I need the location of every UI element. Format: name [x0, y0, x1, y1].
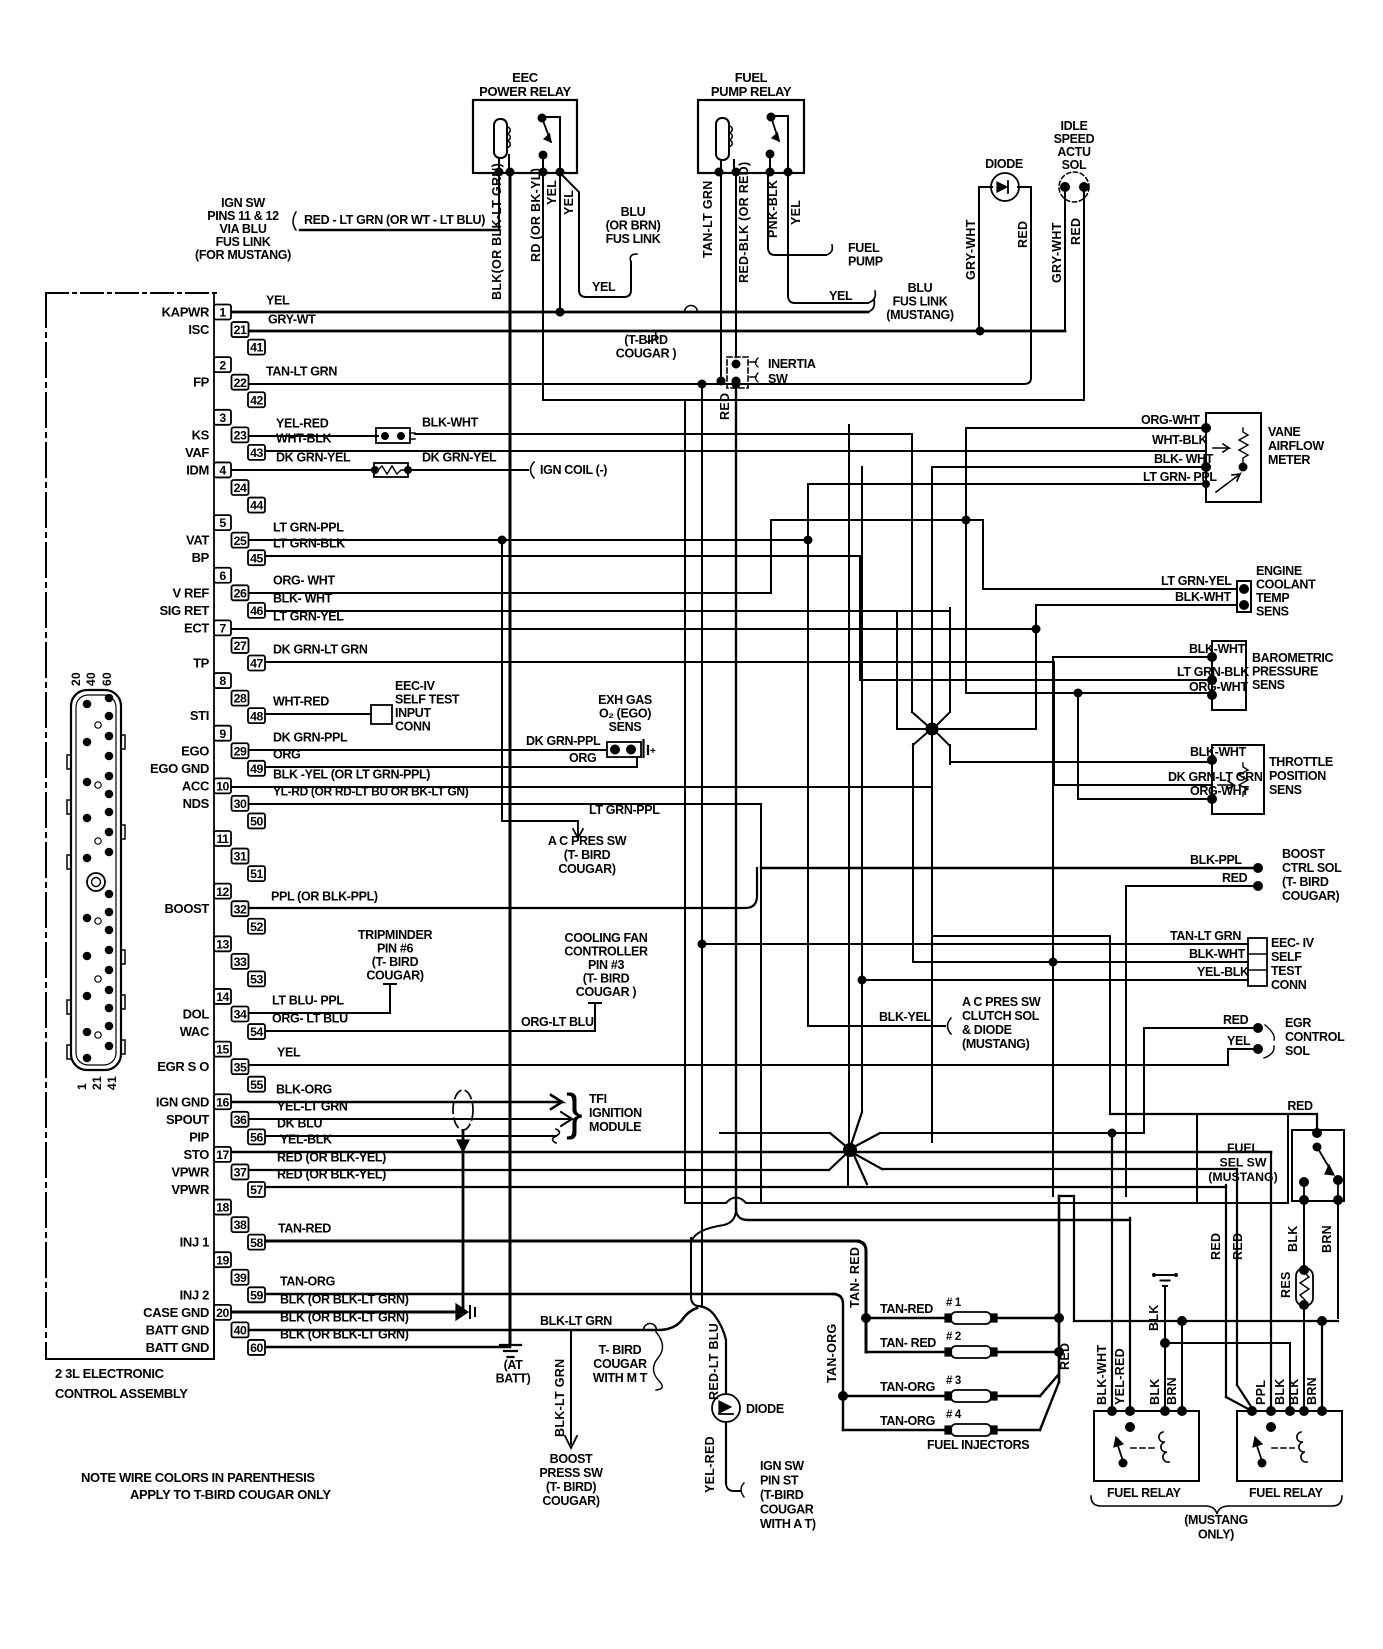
svg-text:DOL: DOL	[183, 1007, 210, 1022]
svg-text:TRIPMINDER: TRIPMINDER	[358, 928, 433, 942]
svg-text:54: 54	[250, 1025, 263, 1039]
svg-text:BLK: BLK	[1147, 1304, 1161, 1331]
svg-text:V REF: V REF	[172, 585, 209, 600]
svg-text:(T- BIRD): (T- BIRD)	[546, 1480, 596, 1494]
svg-text:INPUT: INPUT	[395, 706, 431, 720]
svg-text:BLK-WHT: BLK-WHT	[1189, 947, 1246, 961]
svg-text:BLK-LT GRN: BLK-LT GRN	[553, 1359, 567, 1437]
svg-text:PNK-BLK: PNK-BLK	[766, 180, 780, 238]
svg-text:SPEED: SPEED	[1054, 132, 1095, 146]
svg-text:EEC: EEC	[512, 70, 539, 85]
svg-text:10: 10	[216, 779, 229, 793]
svg-text:32: 32	[234, 902, 247, 916]
svg-text:PIN ST: PIN ST	[760, 1474, 799, 1488]
svg-text:41: 41	[105, 1076, 119, 1090]
svg-text:27: 27	[234, 639, 247, 653]
svg-text:58: 58	[250, 1236, 263, 1250]
svg-text:22: 22	[234, 376, 247, 390]
svg-text:PRESSURE: PRESSURE	[1252, 665, 1318, 679]
svg-text:BLK-PPL: BLK-PPL	[1190, 853, 1242, 867]
svg-text:FUEL RELAY: FUEL RELAY	[1249, 1486, 1324, 1500]
svg-text:50: 50	[250, 815, 263, 829]
svg-text:33: 33	[234, 955, 247, 969]
svg-text:BLK: BLK	[1287, 1378, 1301, 1405]
svg-text:21: 21	[90, 1076, 104, 1090]
svg-text:24: 24	[234, 481, 247, 495]
svg-text:YEL: YEL	[545, 180, 559, 205]
svg-text:SEL SW: SEL SW	[1220, 1156, 1267, 1170]
svg-text:FUEL: FUEL	[735, 70, 768, 85]
svg-text:TAN-RED: TAN-RED	[880, 1302, 933, 1316]
svg-text:8: 8	[219, 674, 226, 688]
svg-text:METER: METER	[1268, 453, 1310, 467]
svg-text:FUEL: FUEL	[848, 241, 880, 255]
svg-text:35: 35	[234, 1060, 247, 1074]
svg-text:15: 15	[216, 1043, 229, 1057]
svg-text:ORG-WHT: ORG-WHT	[1141, 413, 1200, 427]
svg-text:FP: FP	[193, 375, 210, 390]
svg-text:EEC- IV: EEC- IV	[1271, 936, 1315, 950]
svg-text:ORG- LT BLU: ORG- LT BLU	[272, 1012, 348, 1026]
svg-text:LT GRN-PPL: LT GRN-PPL	[273, 521, 344, 535]
svg-text:RED: RED	[1069, 218, 1083, 245]
svg-text:VPWR: VPWR	[171, 1182, 210, 1197]
svg-text:INJ 2: INJ 2	[180, 1287, 209, 1302]
svg-text:TAN-LT GRN: TAN-LT GRN	[701, 180, 715, 258]
svg-text:COUGAR): COUGAR)	[366, 969, 423, 983]
svg-text:TAN-ORG: TAN-ORG	[825, 1324, 839, 1384]
svg-text:INERTIA: INERTIA	[768, 357, 816, 371]
svg-text:DIODE: DIODE	[746, 1402, 784, 1416]
svg-text:PRESS SW: PRESS SW	[539, 1466, 603, 1480]
svg-text:YEL: YEL	[829, 289, 853, 303]
svg-text:4: 4	[219, 464, 226, 478]
svg-text:19: 19	[216, 1253, 229, 1267]
svg-text:9: 9	[219, 727, 226, 741]
svg-text:37: 37	[234, 1166, 247, 1180]
svg-text:40: 40	[84, 672, 98, 686]
svg-text:WITH M T: WITH M T	[593, 1371, 648, 1385]
svg-text:28: 28	[234, 692, 247, 706]
svg-text:GRY-WT: GRY-WT	[268, 313, 316, 327]
svg-text:THROTTLE: THROTTLE	[1269, 755, 1333, 769]
svg-text:ONLY): ONLY)	[1198, 1528, 1234, 1542]
svg-text:STO: STO	[184, 1147, 210, 1162]
svg-text:BRN: BRN	[1165, 1377, 1179, 1405]
svg-text:VAT: VAT	[186, 533, 209, 548]
svg-text:60: 60	[250, 1341, 263, 1355]
svg-text:PIN #6: PIN #6	[377, 942, 414, 956]
svg-text:BOOST: BOOST	[1282, 847, 1325, 861]
svg-text:23: 23	[234, 428, 247, 442]
svg-text:LT GRN-BLK: LT GRN-BLK	[1177, 665, 1249, 679]
svg-text:AIRFLOW: AIRFLOW	[1268, 439, 1324, 453]
svg-text:COUGAR): COUGAR)	[558, 862, 615, 876]
svg-text:VANE: VANE	[1268, 425, 1300, 439]
svg-text:13: 13	[216, 937, 229, 951]
svg-text:SW: SW	[768, 372, 788, 386]
svg-text:CONTROLLER: CONTROLLER	[564, 945, 648, 959]
svg-text:14: 14	[216, 990, 229, 1004]
svg-text:TEMP: TEMP	[1256, 591, 1289, 605]
svg-text:(FOR MUSTANG): (FOR MUSTANG)	[195, 248, 291, 262]
svg-text:EEC-IV: EEC-IV	[395, 679, 436, 693]
svg-text:(OR BRN): (OR BRN)	[606, 219, 661, 233]
svg-text:TAN-LT GRN: TAN-LT GRN	[266, 365, 337, 379]
svg-text:WHT-RED: WHT-RED	[273, 695, 329, 709]
svg-text:(T- BIRD: (T- BIRD	[564, 848, 611, 862]
svg-text:49: 49	[250, 762, 263, 776]
svg-text:CTRL SOL: CTRL SOL	[1282, 861, 1342, 875]
svg-text:17: 17	[216, 1148, 229, 1162]
svg-text:(MUSTANG): (MUSTANG)	[962, 1037, 1030, 1051]
svg-text:RED: RED	[1231, 1233, 1245, 1260]
svg-text:RED: RED	[1223, 1013, 1249, 1027]
svg-text:TAN- RED: TAN- RED	[880, 1336, 936, 1350]
svg-text:IGN SW: IGN SW	[760, 1459, 804, 1473]
svg-text:ENGINE: ENGINE	[1256, 564, 1302, 578]
svg-text:RD (OR BK-YL): RD (OR BK-YL)	[529, 168, 543, 262]
svg-text:WAC: WAC	[180, 1024, 210, 1039]
svg-text:DK GRN-YEL: DK GRN-YEL	[422, 451, 497, 465]
svg-text:BLK-WHT: BLK-WHT	[1175, 590, 1232, 604]
svg-text:BRN: BRN	[1320, 1225, 1334, 1253]
svg-text:LT BLU- PPL: LT BLU- PPL	[272, 994, 344, 1008]
svg-text:CONN: CONN	[1271, 978, 1307, 992]
svg-text:RES: RES	[1279, 1271, 1293, 1298]
svg-text:COOLANT: COOLANT	[1256, 578, 1316, 592]
svg-text:BLK -YEL (OR LT GRN-PPL): BLK -YEL (OR LT GRN-PPL)	[273, 768, 430, 782]
svg-text:FUEL INJECTORS: FUEL INJECTORS	[927, 1438, 1029, 1452]
svg-text:PPL: PPL	[1254, 1380, 1268, 1405]
svg-text:(T- BIRD: (T- BIRD	[1282, 875, 1329, 889]
svg-text:SIG RET: SIG RET	[159, 603, 209, 618]
svg-text:YEL-BLK: YEL-BLK	[280, 1133, 332, 1147]
svg-text:55: 55	[250, 1078, 263, 1092]
svg-text:BLK-ORG: BLK-ORG	[276, 1083, 332, 1097]
svg-text:47: 47	[250, 657, 263, 671]
svg-text:BLK (OR BLK-LT GRN): BLK (OR BLK-LT GRN)	[280, 1293, 409, 1307]
svg-text:BLK: BLK	[1286, 1225, 1300, 1252]
svg-text:TAN-ORG: TAN-ORG	[280, 1275, 335, 1289]
svg-text:FUEL RELAY: FUEL RELAY	[1107, 1486, 1182, 1500]
svg-text:3: 3	[219, 411, 226, 425]
svg-text:36: 36	[234, 1113, 247, 1127]
svg-text:YEL: YEL	[789, 200, 803, 225]
svg-text:57: 57	[250, 1183, 263, 1197]
svg-text:CASE GND: CASE GND	[143, 1305, 209, 1320]
svg-text:TP: TP	[193, 656, 210, 671]
svg-text:DIODE: DIODE	[985, 157, 1023, 171]
svg-text:(MUSTANG: (MUSTANG	[1184, 1513, 1248, 1527]
svg-text:56: 56	[250, 1130, 263, 1144]
svg-text:LT GRN-BLK: LT GRN-BLK	[273, 537, 345, 551]
svg-text:ORG-WHT: ORG-WHT	[1189, 680, 1248, 694]
svg-text:& DIODE: & DIODE	[962, 1023, 1012, 1037]
svg-text:60: 60	[100, 672, 114, 686]
svg-text:SENS: SENS	[1256, 605, 1289, 619]
svg-text:IGNITION: IGNITION	[589, 1106, 642, 1120]
svg-text:FUEL: FUEL	[1227, 1141, 1260, 1155]
svg-text:# 2: # 2	[946, 1331, 961, 1343]
svg-text:TAN-ORG: TAN-ORG	[880, 1414, 935, 1428]
svg-text:5: 5	[219, 516, 226, 530]
svg-text:NOTE WIRE COLORS IN PARENT: NOTE WIRE COLORS IN PARENTHESIS	[81, 1470, 315, 1485]
svg-text:BLK: BLK	[1148, 1378, 1162, 1405]
svg-text:YEL: YEL	[1227, 1034, 1251, 1048]
svg-text:1: 1	[219, 306, 226, 320]
svg-text:LT GRN-PPL: LT GRN-PPL	[589, 803, 660, 817]
svg-text:(T- BIRD: (T- BIRD	[372, 955, 419, 969]
svg-text:RED-LT BLU: RED-LT BLU	[707, 1323, 721, 1400]
svg-text:12: 12	[216, 885, 229, 899]
svg-text:DK GRN-LT GRN: DK GRN-LT GRN	[1168, 770, 1263, 784]
svg-text:# 4: # 4	[946, 1409, 962, 1421]
svg-text:CONTROL ASSEMBLY: CONTROL ASSEMBLY	[55, 1386, 188, 1401]
svg-text:VPWR: VPWR	[171, 1164, 210, 1179]
svg-text:RED: RED	[1016, 221, 1030, 248]
svg-text:IDLE: IDLE	[1060, 119, 1087, 133]
svg-text:BAROMETRIC: BAROMETRIC	[1252, 651, 1334, 665]
svg-text:SELF TEST: SELF TEST	[395, 693, 460, 707]
svg-text:EXH GAS: EXH GAS	[598, 693, 652, 707]
svg-text:# 1: # 1	[946, 1297, 962, 1309]
svg-text:RED: RED	[718, 393, 732, 420]
svg-text:RED: RED	[1287, 1099, 1313, 1113]
svg-text:ORG: ORG	[273, 748, 300, 762]
svg-text:53: 53	[250, 973, 263, 987]
svg-text:MODULE: MODULE	[589, 1120, 641, 1134]
svg-text:SENS: SENS	[609, 720, 642, 734]
svg-text:41: 41	[250, 341, 263, 355]
svg-text:BATT): BATT)	[496, 1372, 531, 1386]
svg-text:SOL: SOL	[1062, 158, 1087, 172]
svg-text:BLK- WHT: BLK- WHT	[273, 592, 333, 606]
svg-text:6: 6	[219, 569, 226, 583]
svg-text:SENS: SENS	[1269, 783, 1302, 797]
svg-text:21: 21	[234, 323, 247, 337]
svg-text:DK GRN-LT GRN: DK GRN-LT GRN	[273, 643, 368, 657]
svg-text:TFI: TFI	[589, 1092, 607, 1106]
svg-text:ACC: ACC	[182, 778, 210, 793]
svg-text:BLK-WHT: BLK-WHT	[1189, 642, 1246, 656]
svg-text:COUGAR): COUGAR)	[1282, 889, 1339, 903]
svg-text:2 3L ELECTRONIC: 2 3L ELECTRONIC	[55, 1366, 165, 1381]
svg-text:A C PRES SW: A C PRES SW	[548, 834, 627, 848]
svg-text:BLK-YEL: BLK-YEL	[879, 1010, 931, 1024]
svg-text:COUGAR ): COUGAR )	[616, 347, 677, 361]
svg-text:FUS LINK: FUS LINK	[893, 295, 948, 309]
svg-text:PUMP RELAY: PUMP RELAY	[711, 84, 792, 99]
svg-text:TEST: TEST	[1271, 964, 1302, 978]
svg-text:NDS: NDS	[183, 796, 210, 811]
svg-text:PIP: PIP	[189, 1129, 210, 1144]
svg-text:BLK(OR BLK-LT GRN): BLK(OR BLK-LT GRN)	[490, 163, 504, 300]
svg-text:30: 30	[234, 797, 247, 811]
svg-text:BLU: BLU	[621, 205, 646, 219]
svg-text:TAN- RED: TAN- RED	[848, 1247, 862, 1308]
svg-text:KS: KS	[192, 427, 210, 442]
svg-text:BLK- WHT: BLK- WHT	[1154, 452, 1214, 466]
svg-text:SELF: SELF	[1271, 950, 1302, 964]
svg-text:VIA BLU: VIA BLU	[219, 222, 266, 236]
svg-text:(T- BIRD: (T- BIRD	[583, 972, 630, 986]
svg-text:51: 51	[250, 867, 263, 881]
svg-text:RED-BLK (OR RED): RED-BLK (OR RED)	[737, 162, 751, 283]
svg-text:BATT GND: BATT GND	[146, 1322, 209, 1337]
svg-text:ORG-LT BLU: ORG-LT BLU	[521, 1015, 594, 1029]
svg-text:PIN #3: PIN #3	[588, 958, 625, 972]
svg-text:RED (OR BLK-YEL): RED (OR BLK-YEL)	[277, 1168, 386, 1182]
svg-text:DK GRN-PPL: DK GRN-PPL	[273, 731, 348, 745]
svg-text:(T-BIRD: (T-BIRD	[624, 333, 668, 347]
svg-text:BLK (OR BLK-LT GRN): BLK (OR BLK-LT GRN)	[280, 1311, 409, 1325]
svg-text:26: 26	[234, 586, 247, 600]
svg-text:COOLING FAN: COOLING FAN	[565, 931, 648, 945]
svg-text:+: +	[650, 746, 656, 757]
svg-text:BATT GND: BATT GND	[146, 1340, 209, 1355]
svg-text:45: 45	[250, 551, 263, 565]
svg-text:FUS LINK: FUS LINK	[606, 232, 661, 246]
svg-text:BLU: BLU	[908, 281, 933, 295]
svg-text:7: 7	[219, 622, 226, 636]
svg-text:BLK-LT GRN: BLK-LT GRN	[540, 1314, 612, 1328]
svg-text:YEL-RED: YEL-RED	[703, 1436, 717, 1493]
svg-text:CONN: CONN	[395, 720, 431, 734]
svg-text:T- BIRD: T- BIRD	[599, 1343, 642, 1357]
svg-text:39: 39	[234, 1271, 247, 1285]
svg-text:59: 59	[250, 1288, 263, 1302]
svg-text:YEL: YEL	[266, 294, 290, 308]
svg-text:20: 20	[216, 1306, 229, 1320]
svg-text:POSITION: POSITION	[1269, 769, 1326, 783]
svg-text:}: }	[566, 1084, 583, 1140]
svg-text:TAN-LT GRN: TAN-LT GRN	[1170, 929, 1241, 943]
svg-text:YEL: YEL	[592, 280, 616, 294]
svg-text:52: 52	[250, 920, 263, 934]
svg-text:YEL-RED: YEL-RED	[276, 417, 329, 431]
svg-text:YEL-BLK: YEL-BLK	[1197, 965, 1249, 979]
svg-text:18: 18	[216, 1201, 229, 1215]
svg-text:CONTROL: CONTROL	[1285, 1030, 1345, 1044]
svg-text:IGN COIL (-): IGN COIL (-)	[540, 463, 607, 477]
svg-text:(T-BIRD: (T-BIRD	[760, 1488, 804, 1502]
svg-text:EGR: EGR	[1285, 1016, 1311, 1030]
svg-text:SPOUT: SPOUT	[166, 1112, 209, 1127]
svg-text:RED: RED	[1222, 871, 1248, 885]
svg-text:46: 46	[250, 604, 263, 618]
svg-text:11: 11	[217, 832, 230, 846]
svg-text:WITH A T): WITH A T)	[760, 1517, 816, 1531]
svg-text:COUGAR): COUGAR)	[542, 1494, 599, 1508]
svg-text:(MUSTANG): (MUSTANG)	[886, 308, 954, 322]
svg-text:SENS: SENS	[1252, 678, 1285, 692]
svg-text:COUGAR: COUGAR	[593, 1357, 647, 1371]
svg-text:RED - LT GRN (OR WT - LT BLU): RED - LT GRN (OR WT - LT BLU)	[304, 213, 485, 227]
svg-text:LT GRN-YEL: LT GRN-YEL	[273, 610, 344, 624]
svg-text:EGR S O: EGR S O	[157, 1059, 209, 1074]
svg-text:YL-RD (OR RD-LT BU OR BK-L: YL-RD (OR RD-LT BU OR BK-LT GN)	[273, 785, 469, 799]
svg-text:YEL: YEL	[562, 190, 576, 215]
svg-text:38: 38	[234, 1218, 247, 1232]
svg-text:44: 44	[250, 499, 263, 513]
svg-text:POWER RELAY: POWER RELAY	[479, 84, 571, 99]
svg-text:ECT: ECT	[184, 620, 209, 635]
svg-text:31: 31	[234, 850, 247, 864]
svg-text:ACTU: ACTU	[1057, 145, 1091, 159]
svg-text:BOOST: BOOST	[550, 1452, 593, 1466]
svg-text:PPL (OR BLK-PPL): PPL (OR BLK-PPL)	[271, 890, 378, 904]
svg-text:RED: RED	[1058, 1343, 1072, 1370]
svg-text:DK BLU: DK BLU	[277, 1117, 322, 1131]
svg-text:40: 40	[234, 1324, 247, 1338]
svg-text:48: 48	[250, 709, 263, 723]
svg-text:1: 1	[75, 1083, 89, 1090]
svg-text:IDM: IDM	[186, 462, 209, 477]
svg-text:VAF: VAF	[185, 445, 209, 460]
svg-text:GRY-WHT: GRY-WHT	[964, 219, 978, 280]
svg-text:BOOST: BOOST	[165, 901, 210, 916]
svg-text:34: 34	[234, 1008, 247, 1022]
svg-text:BLK-WHT: BLK-WHT	[422, 416, 479, 430]
svg-text:ORG-WHT: ORG-WHT	[1190, 784, 1249, 798]
svg-text:DK GRN-YEL: DK GRN-YEL	[276, 451, 351, 465]
svg-text:IGN GND: IGN GND	[156, 1094, 209, 1109]
svg-text:BLK: BLK	[1273, 1378, 1287, 1405]
svg-text:YEL-RED: YEL-RED	[1113, 1348, 1127, 1405]
svg-text:LT GRN- PPL: LT GRN- PPL	[1143, 470, 1217, 484]
svg-text:RED: RED	[1209, 1233, 1223, 1260]
svg-text:EGO GND: EGO GND	[150, 761, 209, 776]
svg-text:WHT-BLK: WHT-BLK	[1152, 433, 1207, 447]
svg-text:ORG: ORG	[569, 751, 596, 765]
svg-text:20: 20	[69, 672, 83, 686]
svg-text:PUMP: PUMP	[848, 255, 883, 269]
svg-text:STI: STI	[190, 708, 209, 723]
svg-text:25: 25	[234, 534, 247, 548]
svg-text:ISC: ISC	[188, 322, 210, 337]
svg-text:42: 42	[250, 393, 263, 407]
svg-text:INJ 1: INJ 1	[180, 1235, 209, 1250]
svg-text:EGO: EGO	[181, 743, 209, 758]
svg-text:BLK (OR BLK-LT GRN): BLK (OR BLK-LT GRN)	[280, 1328, 409, 1342]
svg-text:SOL: SOL	[1285, 1044, 1310, 1058]
svg-text:YEL: YEL	[277, 1046, 301, 1060]
svg-text:(MUSTANG): (MUSTANG)	[1208, 1170, 1277, 1184]
svg-text:TAN-ORG: TAN-ORG	[880, 1380, 935, 1394]
svg-text:COUGAR: COUGAR	[760, 1503, 814, 1517]
svg-text:DK GRN-PPL: DK GRN-PPL	[526, 734, 601, 748]
svg-text:BLK-WHT: BLK-WHT	[1095, 1345, 1109, 1405]
svg-text:PINS 11 & 12: PINS 11 & 12	[207, 209, 279, 223]
svg-text:FUS LINK: FUS LINK	[216, 235, 271, 249]
svg-text:APPLY TO T-BIRD COUGAR ONL: APPLY TO T-BIRD COUGAR ONLY	[130, 1487, 331, 1502]
svg-text:BP: BP	[192, 550, 210, 565]
svg-text:BLK-WHT: BLK-WHT	[1190, 745, 1247, 759]
svg-text:16: 16	[216, 1095, 229, 1109]
svg-text:RED (OR BLK-YEL): RED (OR BLK-YEL)	[277, 1151, 386, 1165]
svg-text:TAN-RED: TAN-RED	[278, 1222, 331, 1236]
svg-text:WHT-BLK: WHT-BLK	[276, 432, 331, 446]
svg-text:(AT: (AT	[504, 1358, 524, 1372]
svg-text:A C PRES SW: A C PRES SW	[962, 995, 1041, 1009]
svg-text:GRY-WHT: GRY-WHT	[1050, 222, 1064, 283]
svg-text:LT GRN-YEL: LT GRN-YEL	[1161, 574, 1232, 588]
svg-text:# 3: # 3	[946, 1375, 961, 1387]
svg-text:29: 29	[234, 744, 247, 758]
svg-text:IGN SW: IGN SW	[221, 196, 265, 210]
svg-text:ORG- WHT: ORG- WHT	[273, 574, 335, 588]
